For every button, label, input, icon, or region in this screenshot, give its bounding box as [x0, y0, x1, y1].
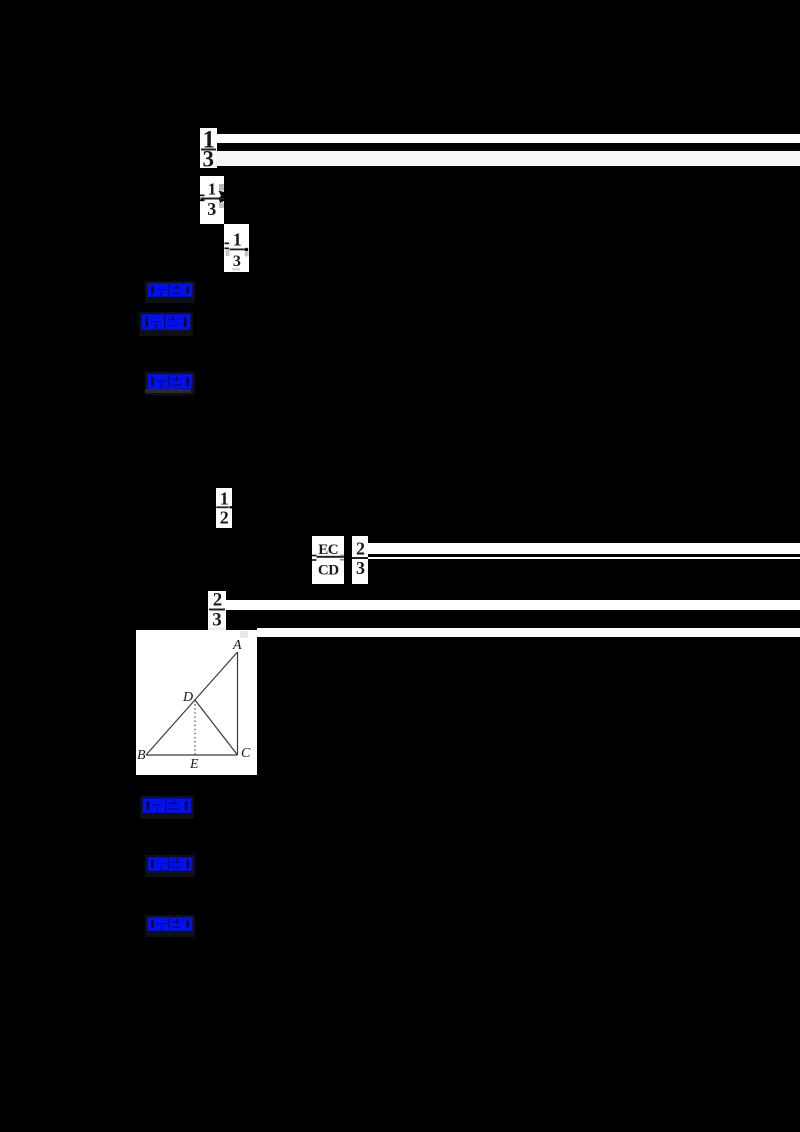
fraction 2/3 (after EC/CD)	[352, 536, 368, 584]
faint sliver under third header	[145, 389, 191, 393]
fraction EC/CD	[312, 536, 344, 584]
wire white bar right of line 1 denominator	[216, 151, 800, 166]
faint artifact patch above A	[240, 631, 248, 638]
svg-text:EC: EC	[318, 542, 338, 558]
header 【解答】 problem 2	[140, 796, 194, 819]
svg-text:3: 3	[202, 147, 214, 169]
header 【解答】 problem 1	[139, 312, 193, 336]
wire white bar right of last 2/3 numerator	[226, 600, 800, 610]
wire white bar lower (next text line)	[257, 628, 800, 637]
svg-text:1: 1	[220, 489, 229, 509]
wire dashed DE	[194, 700, 196, 755]
wire thin white line right of EC/CD fraction bar	[368, 557, 800, 559]
header 【分析】 problem 2	[145, 855, 195, 877]
figure: triangle ABC with D on AB, E on BC	[136, 630, 257, 775]
svg-text:2: 2	[220, 507, 229, 527]
wire segment DC	[195, 700, 238, 755]
wire side BA through D	[146, 652, 238, 755]
svg-text:E: E	[189, 757, 199, 772]
wire white bar right of EC/CD line numerator	[368, 543, 800, 554]
header 【点评】 problem 1	[145, 372, 195, 395]
svg-text:2: 2	[213, 591, 223, 611]
svg-text:3: 3	[207, 199, 216, 219]
fraction 1/3 (second, squared)	[200, 176, 224, 224]
svg-text:2: 2	[356, 539, 365, 559]
wire side BC bottom	[146, 754, 238, 756]
svg-text:D: D	[182, 690, 193, 705]
svg-text:B: B	[137, 748, 146, 763]
svg-text:1: 1	[232, 230, 241, 250]
svg-text:3: 3	[356, 558, 365, 578]
fraction 2/3 (last equation line)	[208, 591, 226, 632]
svg-text:3: 3	[232, 253, 240, 270]
fraction 1/3 (first, line 1)	[200, 128, 217, 168]
wire white bar right of line 1 numerator	[216, 134, 800, 143]
svg-text:C: C	[241, 746, 251, 761]
header 【分析】 problem 1	[145, 281, 195, 303]
header 【点评】 problem 2	[145, 915, 195, 937]
svg-text:1: 1	[208, 180, 217, 199]
wire side AC vertical	[237, 652, 239, 755]
svg-text:CD: CD	[318, 563, 339, 579]
svg-text:A: A	[232, 638, 242, 653]
svg-text:3: 3	[212, 610, 222, 631]
fraction 1/2	[216, 488, 232, 528]
fraction 1/3 (third)	[224, 224, 249, 272]
